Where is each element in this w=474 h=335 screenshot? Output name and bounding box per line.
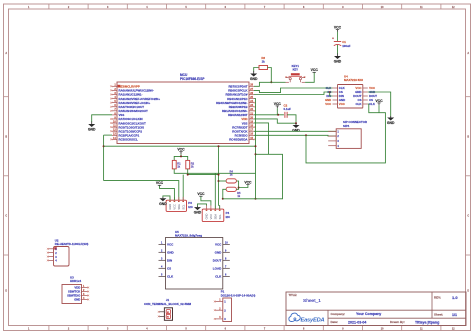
wire RC2 to pin13 stub: [104, 134, 112, 136]
svg-text:1/1: 1/1: [452, 313, 457, 317]
svg-text:VCC: VCC: [244, 181, 252, 185]
wire rail D drop V1: [218, 146, 220, 205]
resistor R4 1k: [226, 179, 236, 183]
svg-text:LOAD: LOAD: [213, 267, 222, 271]
EasyEDA logo: [289, 313, 300, 321]
node rail A start: [103, 145, 105, 147]
svg-text:GND: GND: [292, 129, 300, 133]
svg-text:A: A: [467, 52, 469, 55]
svg-text:CLK: CLK: [167, 275, 174, 279]
node rail A end: [255, 145, 257, 147]
resistor R1 1k: [172, 160, 176, 169]
svg-text:B: B: [467, 135, 469, 138]
svg-text:VCC: VCC: [311, 68, 319, 72]
node VCC R4R5: [238, 187, 240, 189]
svg-text:VCC: VCC: [334, 26, 342, 30]
svg-text:VCC: VCC: [375, 99, 383, 103]
ground flag at P4: [197, 206, 199, 207]
svg-text:VCC: VCC: [274, 102, 282, 106]
ground flag at P3: [162, 197, 164, 198]
node V1 rail D: [218, 174, 220, 176]
svg-text:VCC: VCC: [325, 102, 331, 106]
svg-text:GND: GND: [88, 128, 96, 132]
wire RB6 pin27 to U4 CLK: [254, 88, 333, 93]
svg-text:Tittaya jitpang: Tittaya jitpang: [415, 320, 439, 324]
wire VCC tee to R1 R2: [174, 156, 188, 160]
wire R5 left to rail: [223, 189, 226, 199]
resistor R2 1k: [186, 160, 190, 169]
driver U4 MAX7219 8X8: [338, 85, 363, 109]
wire R3 left to GND: [254, 68, 259, 72]
svg-text:Date:: Date:: [331, 320, 339, 324]
node R5 rail: [222, 198, 224, 200]
svg-text:GND: GND: [194, 211, 202, 215]
svg-text:1.0: 1.0: [452, 295, 458, 300]
svg-text:VCC: VCC: [215, 243, 222, 247]
node U4 DIN branch: [329, 91, 331, 93]
svg-text:A: A: [5, 52, 7, 55]
wire R4 left: [219, 180, 227, 182]
svg-text:MAX7219 8X8: MAX7219 8X8: [344, 78, 363, 82]
wire P3 SCL up to rail D: [182, 175, 184, 201]
svg-text:SCL: SCL: [218, 214, 222, 220]
svg-text:2021-03-04: 2021-03-04: [348, 320, 366, 324]
svg-text:DIN: DIN: [167, 259, 172, 263]
svg-text:VCC: VCC: [177, 148, 185, 152]
node V1 rail A: [218, 145, 220, 147]
svg-text:GND: GND: [215, 251, 223, 255]
wire rail E bottom: [223, 198, 256, 200]
svg-text:SDA: SDA: [177, 204, 181, 210]
wire VDD pin19 row to GND node: [254, 119, 296, 123]
wire C1 to GND: [337, 45, 339, 54]
svg-text:VCC: VCC: [156, 181, 164, 185]
wire RC6 pin17 to SIP pin1: [254, 130, 336, 132]
svg-text:GND: GND: [168, 204, 172, 210]
svg-text:EasyEDA: EasyEDA: [301, 317, 325, 323]
ground flag above MCU: [253, 71, 255, 74]
node VCC tee: [180, 155, 182, 157]
svg-text:DG126-5.0-03P-14-00A(H): DG126-5.0-03P-14-00A(H): [221, 294, 256, 298]
node junction R3/KEY1/RB7: [270, 81, 272, 83]
svg-text:GND: GND: [74, 298, 80, 302]
svg-text:GND: GND: [387, 121, 395, 125]
svg-text:MAX7219_8dig7seg: MAX7219_8dig7seg: [175, 234, 202, 238]
svg-text:RC4/SDI/SDA: RC4/SDI/SDA: [229, 138, 248, 142]
node R4 left: [218, 180, 220, 182]
node C2 ground junction: [295, 122, 297, 124]
svg-text:1k: 1k: [191, 165, 194, 169]
connector P3 I2C: [166, 200, 186, 211]
wire P3 GND pin1: [163, 196, 170, 200]
wire RC2 pin13 south: [103, 135, 105, 181]
svg-text:C: C: [467, 214, 469, 217]
wire C2 right to GND: [287, 115, 296, 123]
wire VSS pin8 to GND: [92, 115, 112, 122]
svg-text:CLK: CLK: [369, 102, 375, 106]
svg-text:SCL: SCL: [181, 204, 185, 210]
svg-text:VCC: VCC: [173, 204, 177, 210]
wire U4 CLK loop to SDO rail: [306, 104, 385, 163]
svg-text:VCC: VCC: [339, 102, 346, 106]
svg-text:REV:: REV:: [434, 296, 441, 300]
svg-text:GND: GND: [334, 60, 342, 64]
node south rail upper: [255, 153, 257, 155]
wire rail C drop to P4 SDA: [214, 173, 216, 205]
svg-text:SIP4: SIP4: [343, 124, 350, 128]
svg-text:C: C: [5, 214, 7, 217]
svg-text:Sheet:: Sheet:: [434, 313, 443, 317]
ground flag below C2: [295, 123, 297, 125]
wire P4 SCL from V1: [219, 205, 220, 207]
node south rail lower: [255, 198, 257, 200]
node R2 bottom: [187, 174, 189, 176]
svg-text:D: D: [467, 289, 469, 292]
svg-text:KEY: KEY: [293, 67, 299, 71]
wire P4 GND pin1: [198, 204, 207, 206]
svg-text:CLK: CLK: [356, 102, 363, 106]
svg-text:TITLE:: TITLE:: [289, 293, 298, 297]
wire R2 bottom rail D: [188, 169, 219, 175]
connector P4 I2C: [202, 209, 224, 222]
svg-text:+: +: [332, 37, 334, 41]
svg-text:Company:: Company:: [331, 312, 346, 316]
svg-text:RE-HE42TD-1100/LF(SN): RE-HE42TD-1100/LF(SN): [55, 242, 89, 246]
wire RB5 pin26 to U4 CS: [254, 92, 333, 95]
connector SIP4: [336, 129, 361, 149]
wire VCC stub R4R5: [239, 185, 248, 188]
svg-text:100uF: 100uF: [342, 44, 351, 48]
svg-text:GND: GND: [167, 251, 175, 255]
svg-text:D: D: [5, 289, 7, 292]
svg-text:HDR1x4: HDR1x4: [70, 279, 81, 283]
wire RC5 pin16 to SIP pin2: [254, 134, 336, 137]
wire R1 bottom rail C: [174, 169, 255, 173]
resistor R5 1k: [226, 187, 236, 191]
node SDO junction: [305, 134, 307, 136]
svg-text:1k: 1k: [177, 165, 180, 169]
wire U4 GND pin to ground: [368, 92, 391, 117]
svg-text:B: B: [5, 135, 7, 138]
svg-text:VCC: VCC: [167, 243, 174, 247]
wire RB7 pin28 to junction: [254, 82, 271, 86]
resistor R3: [259, 66, 268, 70]
wire junction to KEY1: [271, 81, 285, 83]
svg-text:GND: GND: [159, 202, 167, 206]
svg-text:RC3/SCK/SCL: RC3/SCK/SCL: [119, 138, 139, 142]
wire VSS pin row10 south: [254, 123, 269, 154]
svg-text:GND: GND: [205, 214, 209, 220]
svg-text:0.1uF: 0.1uF: [284, 107, 292, 111]
svg-text:DOUT: DOUT: [213, 259, 222, 263]
svg-text:VCC: VCC: [209, 214, 213, 220]
wire P3 VCC pin2: [160, 186, 175, 201]
svg-text:Your Company: Your Company: [356, 312, 381, 316]
wire RB4 pin25 south rail: [254, 99, 256, 199]
svg-text:VCC: VCC: [197, 192, 205, 196]
wire rail A: [104, 145, 256, 147]
svg-text:PIC16F886-E/SP: PIC16F886-E/SP: [180, 77, 205, 81]
wire RB0 row to VCC node: [254, 114, 284, 116]
node VDD junction: [277, 114, 279, 116]
ground flag right of U4: [390, 116, 392, 118]
svg-text:Drawn By:: Drawn By:: [390, 320, 405, 324]
capacitor C2 0.1uF: [284, 112, 286, 118]
svg-text:CON_TERMINAL_BLOCK_02-5MM: CON_TERMINAL_BLOCK_02-5MM: [144, 302, 192, 306]
wire rail B to P3 SDA: [104, 181, 179, 201]
wire branch to U4 DIN: [330, 92, 333, 96]
wire KEY1 right to VCC: [305, 73, 314, 83]
svg-text:SDA: SDA: [213, 214, 217, 220]
MCU U1 PIC16F886-E/SP: [117, 82, 249, 144]
ground flag left of MCU: [91, 122, 93, 125]
wire R4 R5 right to VCC: [236, 181, 238, 189]
svg-text:CS: CS: [167, 267, 171, 271]
svg-text:1k: 1k: [262, 60, 266, 64]
ground flag below C1: [337, 54, 339, 57]
title block: [286, 292, 466, 326]
wire P4 VCC pin2: [201, 197, 211, 206]
svg-text:CLK: CLK: [215, 275, 222, 279]
svg-text:GND: GND: [250, 77, 258, 81]
wire R3 right to key junction: [268, 68, 272, 83]
wire loop right of south rail: [256, 154, 283, 199]
svg-text:Sheet_1: Sheet_1: [303, 298, 321, 304]
